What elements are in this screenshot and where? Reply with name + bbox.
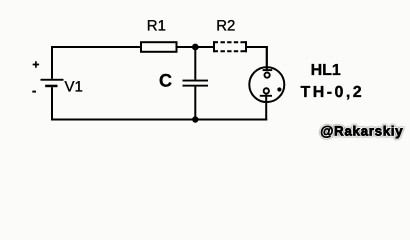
lamp HL1 bulb circle <box>249 67 284 102</box>
wire: capacitor down to bottom node <box>194 87 196 120</box>
node B (junction dot bottom) <box>192 116 198 122</box>
capacitor C plates <box>183 80 209 87</box>
label C <box>159 71 172 91</box>
svg-text:@Rakarskiy: @Rakarskiy <box>320 123 403 138</box>
label - (battery negative) <box>32 83 36 98</box>
resistor R2 (dashed outline) <box>213 41 247 52</box>
svg-text:C: C <box>159 71 172 91</box>
label + (battery positive) <box>32 58 39 72</box>
wire: R1 to node A <box>178 46 214 48</box>
svg-text:+: + <box>32 58 39 72</box>
svg-text:-: - <box>32 83 36 98</box>
wire: top-left horizontal from battery to R1 <box>51 46 141 48</box>
lamp HL1 gas-fill dot <box>277 87 281 91</box>
svg-text:R1: R1 <box>147 17 166 34</box>
battery V1 plates <box>41 79 64 87</box>
svg-text:TH-0,2: TH-0,2 <box>300 84 364 101</box>
wire: bottom horizontal <box>51 119 267 121</box>
wire: left vertical below battery <box>51 87 53 120</box>
watermark @Rakarskiy <box>320 123 403 138</box>
label R1 <box>147 17 166 34</box>
svg-text:HL1: HL1 <box>311 62 341 79</box>
svg-text:V1: V1 <box>65 79 83 96</box>
wire: node A down to capacitor <box>194 47 196 80</box>
label V1 <box>65 79 83 96</box>
label HL1 <box>311 62 341 79</box>
resistor R1 <box>141 42 177 52</box>
wire: R2 to lamp top corner <box>247 47 267 71</box>
svg-text:R2: R2 <box>216 17 235 34</box>
label TH-0,2 <box>300 84 364 101</box>
label R2 <box>216 17 235 34</box>
node A (junction dot top) <box>192 44 199 51</box>
lamp HL1 top electrode <box>263 46 273 78</box>
lamp HL1 bottom electrode <box>260 88 272 120</box>
wire: left vertical above battery <box>51 46 53 79</box>
